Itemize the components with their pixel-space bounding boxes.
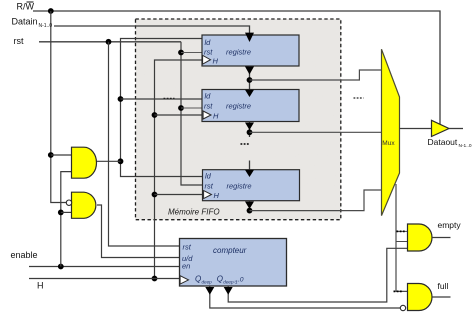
- svg-text:empty: empty: [438, 220, 462, 230]
- AND gate G2 (read): [72, 192, 96, 218]
- svg-text:rst: rst: [204, 48, 213, 57]
- node H line: [152, 276, 158, 282]
- wire tap to empty in2: [396, 241, 408, 243]
- svg-text:...0: ...0: [235, 277, 244, 284]
- wire datain arrow into R1: [245, 33, 254, 42]
- wire R1 to R2 chain: [249, 66, 251, 90]
- wire ld to reg2: [121, 98, 203, 100]
- node R2 output: [247, 129, 253, 135]
- svg-text:rst: rst: [205, 182, 214, 191]
- register R3: [203, 170, 300, 201]
- wire ld bus: [121, 39, 203, 177]
- wire full output: [432, 296, 451, 298]
- wire Qdeep to full gate: [210, 287, 400, 309]
- wire chain resume into R3: [249, 161, 251, 171]
- svg-text:H: H: [213, 112, 219, 121]
- wire R/W to AND1 in1: [51, 154, 72, 156]
- svg-text:registre: registre: [226, 48, 251, 57]
- wire enable to AND2: [61, 211, 72, 213]
- node enable AND2: [58, 210, 64, 216]
- node R1 output: [247, 77, 253, 83]
- wire enable bus: [61, 172, 72, 267]
- buffer U1: [432, 120, 450, 136]
- wire rst horizontal: [39, 41, 181, 43]
- wire R/W horizontal: [33, 11, 440, 124]
- svg-text:H: H: [214, 191, 220, 200]
- wire R1 output to mux: [250, 70, 382, 80]
- AND gate empty: [408, 224, 433, 251]
- svg-text:enable: enable: [11, 250, 38, 260]
- wire mux output: [400, 128, 432, 130]
- ellipsis left of registers: [164, 97, 175, 99]
- wire rst to reg2: [181, 107, 203, 109]
- wire R2 output to mux: [250, 131, 382, 133]
- wire rst to reg1: [181, 52, 203, 54]
- wire arrow into R3: [245, 170, 254, 177]
- svg-text:Dataout: Dataout: [428, 137, 458, 147]
- compteur counter: [180, 239, 287, 287]
- svg-text:registre: registre: [227, 182, 252, 191]
- svg-text:ld: ld: [205, 92, 212, 101]
- svg-text:N-1..0: N-1..0: [39, 23, 53, 29]
- wire enable: [29, 266, 180, 268]
- wire Datain: [54, 26, 250, 34]
- inverter bubble G2 in1: [66, 200, 71, 205]
- wire H to reg2: [155, 114, 204, 116]
- svg-text:ld: ld: [205, 38, 212, 47]
- wire R2 bottom chain stub: [249, 122, 251, 138]
- wire H bus: [155, 60, 203, 279]
- wire empty output: [432, 237, 451, 239]
- wire R3 output to mux: [250, 190, 382, 211]
- ellipsis chain dots: [241, 143, 250, 145]
- svg-text:compteur: compteur: [213, 246, 247, 255]
- node rst branch: [106, 39, 112, 45]
- ellipsis full in1: [394, 290, 403, 292]
- svg-text:N-1..0: N-1..0: [459, 143, 472, 149]
- wire arrow into R2: [245, 90, 254, 97]
- node R3 output: [247, 208, 253, 214]
- svg-text:Q: Q: [195, 275, 201, 284]
- node enable: [58, 264, 64, 270]
- wire tap to empty in1: [396, 230, 408, 232]
- wire AND2 output to counter u/d: [97, 205, 180, 258]
- svg-text:Mux: Mux: [382, 140, 395, 147]
- node rst reg2: [178, 105, 184, 111]
- svg-text:full: full: [438, 281, 449, 291]
- wire AND1 output: [97, 160, 121, 162]
- svg-text:rst: rst: [14, 36, 24, 46]
- AND gate full: [408, 284, 433, 311]
- wire R/W vertical bus: [51, 11, 67, 203]
- svg-text:R/W: R/W: [17, 2, 35, 12]
- svg-text:rst: rst: [204, 102, 213, 111]
- Mémoire FIFO dashed box: [136, 19, 341, 220]
- node R/W junction: [48, 8, 54, 14]
- register R2: [202, 90, 299, 122]
- svg-text:rst: rst: [183, 243, 192, 252]
- AND gate G1 (write): [72, 147, 97, 178]
- wire dataout: [449, 128, 463, 130]
- wire R3 bottom: [249, 201, 251, 211]
- svg-text:H: H: [213, 57, 219, 66]
- svg-text:H: H: [37, 281, 44, 291]
- node ld reg2: [118, 96, 124, 102]
- wire H to reg3: [155, 194, 204, 196]
- register R1: [202, 35, 299, 66]
- wire Qdeep-1..0 to empty gate: [228, 248, 407, 302]
- svg-text:Datain: Datain: [12, 17, 38, 27]
- svg-text:ld: ld: [205, 171, 212, 180]
- wire mux select bus: [396, 184, 408, 291]
- svg-text:registre: registre: [226, 102, 251, 111]
- wire rst bus to registers: [181, 42, 203, 185]
- svg-text:Q: Q: [217, 275, 223, 284]
- node R/W to AND1: [48, 152, 54, 158]
- node H reg2: [152, 112, 158, 118]
- node rst reg1: [178, 50, 184, 56]
- svg-text:en: en: [182, 261, 190, 270]
- ellipsis empty in1: [397, 230, 407, 232]
- svg-text:Mémoire FIFO: Mémoire FIFO: [168, 208, 220, 217]
- inverter bubble full in2: [400, 305, 405, 310]
- wire rst branch to counter: [109, 42, 180, 246]
- svg-text:deep: deep: [202, 279, 213, 284]
- ellipsis left of mux: [354, 97, 364, 99]
- Mux: [382, 49, 400, 215]
- node AND1 out join: [118, 158, 124, 164]
- wire H input line: [29, 278, 180, 280]
- node H reg3: [152, 192, 158, 198]
